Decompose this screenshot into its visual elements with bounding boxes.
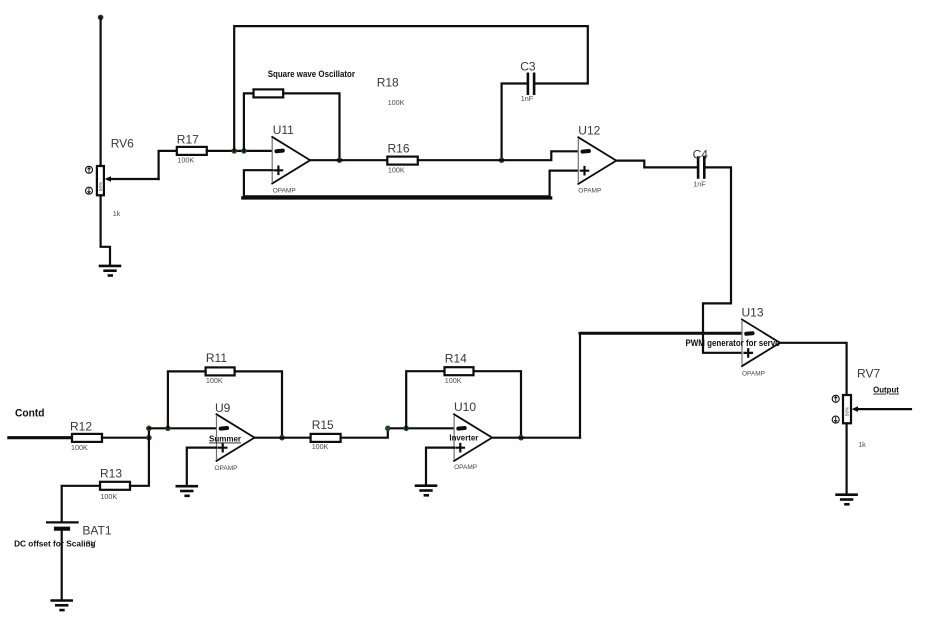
op-amp U9 [217, 414, 255, 461]
potentiometer RV7 [832, 395, 911, 423]
op-amp U10 [454, 414, 492, 461]
node (282,437.7) [279, 435, 285, 441]
svg-text:Summer: Summer [209, 434, 242, 444]
svg-text:100K: 100K [177, 156, 194, 165]
node (339.5,160.2) [337, 157, 343, 163]
svg-text:OPAMP: OPAMP [454, 464, 477, 471]
svg-text:R12: R12 [70, 420, 92, 434]
resistor R16 [387, 157, 418, 165]
svg-text:Output: Output [873, 385, 899, 395]
svg-text:1nF: 1nF [693, 180, 706, 189]
capacitor C3 [528, 74, 534, 94]
ground (U9) [177, 486, 197, 496]
svg-text:DC offset for Scaling: DC offset for Scaling [14, 539, 96, 549]
svg-text:BAT1: BAT1 [82, 524, 111, 538]
svg-text:100K: 100K [388, 166, 405, 175]
wire R17 to U11 minus [207, 150, 272, 152]
ground (BAT1) [52, 601, 72, 611]
svg-text:R17: R17 [177, 133, 199, 147]
wire input Contd [9, 436, 72, 439]
svg-text:1k: 1k [858, 440, 866, 449]
svg-text:RV6: RV6 [111, 137, 134, 151]
wire R18 right to U11 output node [283, 93, 339, 160]
node (520.8,437.7) [518, 435, 524, 441]
wire R12 to junction [102, 437, 149, 439]
wire C4 to U13 plus [703, 167, 742, 352]
resistor R12 [72, 434, 102, 442]
svg-text:100K: 100K [312, 442, 329, 451]
resistor R13 [100, 482, 130, 490]
wire U9 minus line [149, 427, 217, 429]
svg-text:R11: R11 [206, 351, 227, 365]
svg-text:50%: 50% [98, 182, 103, 191]
svg-text:OPAMP: OPAMP [742, 370, 765, 377]
svg-text:R14: R14 [445, 352, 467, 366]
wire U10 plus to ground [426, 448, 454, 486]
wire R11 right to output node [235, 371, 282, 437]
wire C3 left to output node [502, 84, 527, 161]
wire R13 right to junction [130, 438, 149, 486]
node (501.6,160.2) [499, 157, 505, 163]
wire R14 left to minus node [406, 371, 444, 428]
resistor R15 [311, 434, 341, 442]
node (406.2,428.3) [403, 426, 409, 432]
wire U13 output to RV7 [780, 343, 847, 395]
node (388.2,428.3) [385, 426, 391, 432]
wire U12 output to C4 [616, 161, 696, 168]
wire RV6 wiper to R17 [159, 151, 177, 179]
svg-text:C3: C3 [520, 60, 536, 74]
svg-text:100K: 100K [100, 492, 117, 501]
svg-text:U12: U12 [578, 123, 600, 137]
wire U10 output rising to U13 [579, 334, 581, 438]
svg-text:100K: 100K [206, 376, 223, 385]
svg-text:R16: R16 [388, 142, 410, 156]
wire top node to RV6 top [99, 17, 101, 166]
node (234.2,150.9) [231, 148, 237, 154]
svg-text:U10: U10 [454, 400, 476, 414]
wire R16 to U12 minus [418, 151, 579, 160]
ground (U10) [416, 486, 436, 496]
svg-text:OPAMP: OPAMP [273, 187, 296, 194]
wire R13 left to battery [62, 486, 100, 523]
svg-text:PWM generator for servo: PWM generator for servo [686, 338, 781, 348]
svg-text:R18: R18 [377, 76, 399, 90]
wire RV7 bottom to ground [845, 423, 847, 494]
op-amp U13 [742, 320, 780, 367]
svg-text:3V: 3V [86, 539, 96, 548]
wire R11 left to minus node [168, 371, 206, 428]
wire U11 output to R16 [310, 159, 387, 161]
svg-text:Contd: Contd [15, 408, 45, 420]
svg-text:U13: U13 [742, 306, 764, 320]
svg-text:1nF: 1nF [521, 94, 534, 103]
svg-text:OPAMP: OPAMP [215, 465, 238, 472]
svg-text:C4: C4 [693, 148, 709, 162]
svg-text:OPAMP: OPAMP [578, 188, 601, 195]
wire R14 right to output node [474, 371, 522, 438]
svg-text:U11: U11 [273, 123, 294, 137]
svg-text:Inverter: Inverter [449, 433, 479, 443]
wire battery to ground [61, 531, 63, 601]
node (243.9,150.9) [241, 148, 247, 154]
node (167.9,428.3) [165, 426, 171, 432]
svg-text:1k: 1k [113, 209, 121, 218]
svg-text:R13: R13 [100, 467, 122, 481]
wire outer feedback loop top [234, 26, 588, 151]
node (148.9,437.7) [146, 435, 152, 441]
svg-text:U9: U9 [215, 401, 231, 415]
svg-text:100K: 100K [445, 376, 462, 385]
resistor R14 [445, 367, 474, 375]
wire U9 output to R15 [255, 437, 311, 439]
svg-text:RV7: RV7 [857, 367, 880, 381]
battery BAT1 [47, 522, 78, 528]
potentiometer RV6 [86, 166, 159, 195]
capacitor C4 [698, 158, 704, 178]
wire R18 left to U11 minus node [244, 93, 254, 150]
wire U11 plus feedback to U12 plus [244, 170, 578, 196]
node top-left junction [98, 15, 104, 21]
wire junction up [148, 428, 150, 437]
op-amp U11 [272, 137, 310, 184]
ground (RV6) [100, 266, 120, 276]
wire U9 plus to ground [187, 448, 217, 487]
svg-text:Square wave Oscillator: Square wave Oscillator [268, 69, 356, 79]
wire U13 minus line [580, 332, 742, 335]
svg-text:R15: R15 [312, 418, 334, 432]
svg-text:50%: 50% [845, 407, 850, 416]
resistor R18 [254, 89, 284, 97]
wire R15 to U10 minus [341, 428, 455, 437]
node (148.9,428.3) [146, 426, 152, 432]
wire U10 output to vertical riser [492, 437, 580, 439]
resistor R17 [177, 147, 207, 155]
ground (RV7) [837, 495, 857, 505]
svg-text:100K: 100K [388, 98, 405, 107]
op-amp U12 [578, 137, 616, 184]
resistor R11 [206, 367, 235, 375]
svg-text:100K: 100K [71, 443, 88, 452]
wire RV6 bottom to ground [101, 195, 110, 266]
